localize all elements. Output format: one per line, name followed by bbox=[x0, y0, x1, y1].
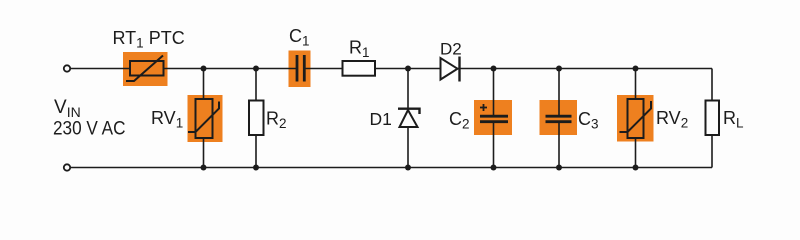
wire RV2 branch bbox=[635, 69, 637, 168]
wire D1 branch bbox=[407, 69, 409, 168]
svg-text:230 V AC: 230 V AC bbox=[53, 119, 126, 140]
junction C3 bottom bbox=[556, 165, 562, 171]
resistor R1 bbox=[343, 61, 376, 76]
junction C3 top bbox=[556, 66, 562, 72]
varistor RV1 bbox=[188, 99, 219, 138]
wire C3 branch lower bbox=[558, 122, 560, 168]
junction RV1 top bbox=[201, 66, 207, 72]
svg-text:D2: D2 bbox=[440, 40, 462, 59]
junction D1 top bbox=[405, 66, 411, 72]
highlight box RV2 bbox=[617, 95, 654, 142]
terminal input bottom bbox=[64, 164, 70, 170]
junction C2 top bbox=[491, 66, 497, 72]
wire top rail left of C1 bbox=[71, 68, 297, 70]
wire R2 branch bbox=[255, 69, 257, 168]
svg-text:D1: D1 bbox=[370, 109, 392, 129]
terminal input top bbox=[64, 65, 70, 71]
wire RL branch bbox=[711, 69, 713, 168]
wire C2 branch lower bbox=[493, 122, 495, 168]
wire C3 branch upper bbox=[558, 69, 560, 117]
junction RV1 bottom bbox=[201, 165, 207, 171]
junction C2 bottom bbox=[491, 165, 497, 171]
highlight box C1 bbox=[289, 51, 311, 88]
wire bottom rail bbox=[71, 167, 713, 169]
wire top rail right of C1 bbox=[305, 68, 713, 70]
svg-text:RT1 PTC: RT1 PTC bbox=[113, 28, 185, 51]
capacitor C3 bbox=[546, 116, 572, 122]
wire C2 branch upper bbox=[493, 69, 495, 117]
junction D1 bottom bbox=[405, 165, 411, 171]
resistor RL bbox=[706, 101, 720, 136]
diode D2 bbox=[441, 57, 460, 82]
highlight box C3 bbox=[540, 100, 578, 135]
thermistor RT1 bbox=[126, 56, 164, 82]
wire RV1 branch bbox=[203, 69, 205, 168]
highlight box RV1 bbox=[188, 95, 223, 142]
highlight box C2 bbox=[474, 100, 512, 135]
capacitor C1 bbox=[297, 55, 304, 82]
junction RV2 bottom bbox=[633, 165, 639, 171]
varistor RV2 bbox=[620, 99, 652, 138]
resistor R2 bbox=[249, 101, 264, 136]
highlight box RT1 bbox=[123, 52, 168, 86]
zener diode D1 bbox=[398, 109, 420, 127]
junction RV2 top bbox=[633, 66, 639, 72]
junction R2 top bbox=[253, 66, 259, 72]
junction R2 bottom bbox=[253, 165, 259, 171]
capacitor C2 bbox=[480, 104, 508, 122]
